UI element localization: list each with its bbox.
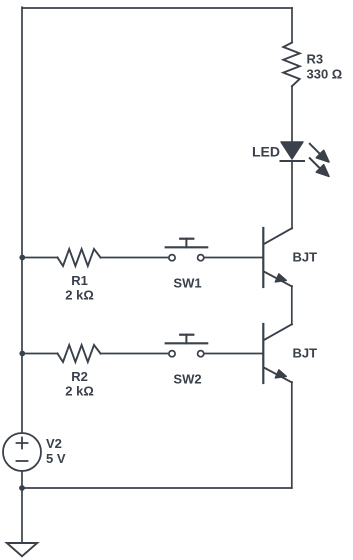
wire SW1 to BJT1 base xyxy=(204,257,263,259)
svg-text:SW1: SW1 xyxy=(173,276,201,291)
wire SW2 to BJT2 base xyxy=(204,353,263,355)
resistor R2 xyxy=(58,345,101,362)
wire R3 to LED xyxy=(291,86,293,142)
wire R1 to SW1 xyxy=(101,257,169,259)
voltage source V2 circle xyxy=(3,433,41,471)
svg-text:LED: LED xyxy=(252,143,280,159)
resistor R3 xyxy=(283,43,299,87)
svg-text:5 V: 5 V xyxy=(46,451,66,466)
svg-text:R1: R1 xyxy=(71,273,88,288)
LED emission arrow 2 xyxy=(310,158,329,176)
node junction dot row1 xyxy=(19,255,25,261)
svg-text:SW2: SW2 xyxy=(173,372,201,387)
wire V2 bottom to ground node xyxy=(21,471,23,543)
svg-text:2 kΩ: 2 kΩ xyxy=(65,288,94,303)
wire row2 left to R2 xyxy=(22,353,58,355)
switch SW1 xyxy=(166,239,208,261)
wire top rail xyxy=(22,7,292,9)
svg-text:V2: V2 xyxy=(46,436,62,451)
transistor BJT1 base bar xyxy=(262,228,264,287)
wire BJT1 emitter to BJT2 collector xyxy=(291,286,293,324)
transistor BJT2 emitter diagonal with arrow xyxy=(264,368,292,383)
ground symbol xyxy=(7,543,37,556)
svg-text:BJT: BJT xyxy=(293,250,318,265)
transistor BJT1 collector diagonal xyxy=(264,228,292,244)
resistor R1 xyxy=(58,249,101,266)
svg-text:2 kΩ: 2 kΩ xyxy=(65,384,94,399)
wire BJT2 emitter down right rail xyxy=(291,382,293,488)
LED emission arrow 1 xyxy=(310,144,329,162)
voltage source V2 plus sign xyxy=(17,438,28,449)
svg-text:R2: R2 xyxy=(71,369,88,384)
wire R2 to SW2 xyxy=(101,353,169,355)
svg-text:BJT: BJT xyxy=(293,346,318,361)
wire left rail xyxy=(21,7,23,433)
node junction dot bottom xyxy=(19,485,25,491)
node junction dot row2 xyxy=(19,351,25,357)
transistor BJT2 base bar xyxy=(262,324,264,383)
svg-text:330 Ω: 330 Ω xyxy=(307,67,343,82)
svg-text:R3: R3 xyxy=(307,52,324,67)
LED cathode bar xyxy=(281,160,305,162)
LED diode triangle xyxy=(281,142,303,159)
switch SW2 xyxy=(166,335,208,357)
wire row1 left to R1 xyxy=(22,257,58,259)
wire LED to BJT1 collector xyxy=(291,161,293,228)
wire top right drop to R3 xyxy=(291,8,293,43)
transistor BJT2 collector diagonal xyxy=(264,324,292,340)
transistor BJT1 emitter diagonal with arrow xyxy=(264,272,292,287)
wire bottom rail xyxy=(22,487,292,489)
voltage source V2 minus sign xyxy=(17,460,28,462)
